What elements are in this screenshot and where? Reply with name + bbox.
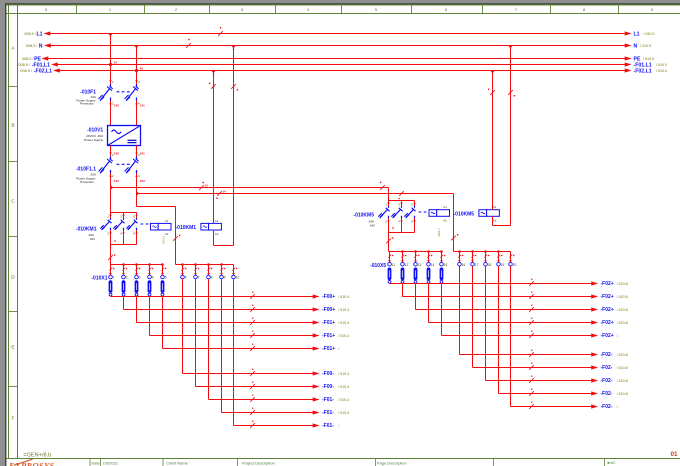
svg-text:10: 10 bbox=[236, 276, 240, 280]
terminal 9 bbox=[221, 265, 223, 276]
wire F1.1 pole2 down bbox=[136, 173, 138, 207]
wire output -F01+ row 5 bbox=[162, 296, 164, 349]
svg-text:E: E bbox=[11, 345, 14, 351]
terminal 11 bbox=[389, 252, 391, 263]
svg-text:/: / bbox=[338, 424, 339, 428]
svg-text:9: 9 bbox=[224, 276, 226, 280]
wire output -F01- row 8 bbox=[208, 279, 210, 399]
svg-text:14: 14 bbox=[431, 263, 435, 267]
svg-text:008.9 /: 008.9 / bbox=[18, 63, 31, 67]
terminal 2 bbox=[123, 265, 125, 276]
wire coil KM5b to N bbox=[492, 216, 494, 225]
svg-text:-F00+: -F00+ bbox=[322, 307, 335, 313]
svg-text:N: N bbox=[39, 43, 43, 49]
svg-text:5: 5 bbox=[165, 276, 167, 280]
svg-text:/ 010.0: / 010.0 bbox=[643, 57, 654, 61]
svg-text:Page Description: Page Description bbox=[377, 460, 407, 465]
svg-text:-F00-: -F00- bbox=[322, 384, 334, 390]
coil KM1 b bbox=[201, 223, 209, 230]
svg-text:-F02+: -F02+ bbox=[601, 294, 614, 300]
svg-text:/ 010.4: / 010.4 bbox=[338, 308, 349, 312]
wire output -F02+ row 5 bbox=[441, 283, 443, 336]
svg-text:-F02,L1: -F02,L1 bbox=[634, 68, 652, 74]
contactor KM5 pole 1 bbox=[388, 206, 390, 208]
svg-text:/ 010.0: / 010.0 bbox=[656, 69, 667, 73]
contactor KM1 pole 3 bbox=[136, 218, 138, 220]
title block bbox=[89, 459, 91, 466]
svg-text:A1: A1 bbox=[165, 219, 169, 223]
svg-text:1: 1 bbox=[113, 276, 115, 280]
terminal 5 bbox=[162, 265, 164, 276]
svg-text:01: 01 bbox=[671, 451, 679, 458]
svg-text:L1: L1 bbox=[36, 31, 42, 37]
svg-text:/ 010.0: / 010.0 bbox=[640, 44, 651, 48]
svg-text:/ 010.4: / 010.4 bbox=[338, 372, 349, 376]
wire bus -F02,L1 bbox=[59, 70, 625, 72]
svg-text:/ 010.8: / 010.8 bbox=[617, 353, 628, 357]
svg-text:A1: A1 bbox=[493, 205, 497, 209]
svg-text:-010KM5: -010KM5 bbox=[454, 211, 475, 217]
svg-text:1/5/2021: 1/5/2021 bbox=[103, 460, 118, 465]
svg-text:15: 15 bbox=[444, 263, 448, 267]
svg-text:-F02-: -F02- bbox=[601, 352, 613, 358]
circuit breaker F1.1 pole 1 bbox=[110, 156, 112, 159]
svg-text:7: 7 bbox=[198, 276, 200, 280]
svg-text:4: 4 bbox=[152, 276, 154, 280]
bus interrupt ticks bbox=[218, 31, 223, 36]
svg-text:141: 141 bbox=[140, 103, 145, 107]
svg-text:140: 140 bbox=[114, 103, 119, 107]
terminal 18 bbox=[485, 252, 487, 263]
svg-text:19: 19 bbox=[501, 263, 505, 267]
circuit breaker F1.1 pole 2 bbox=[136, 156, 138, 159]
svg-text:KM: KM bbox=[90, 237, 95, 241]
F1.1 mechanical link bbox=[117, 163, 131, 165]
contactor KM5 pole 3 bbox=[414, 206, 416, 208]
svg-text:-010KM1: -010KM1 bbox=[76, 226, 97, 232]
svg-text:/ 010.8: / 010.8 bbox=[617, 379, 628, 383]
wire output -F02+ row 4 bbox=[428, 283, 430, 323]
junction taps on buses bbox=[108, 34, 113, 37]
svg-text:-F01-: -F01- bbox=[322, 410, 334, 416]
contactor KM1 top bus bbox=[111, 212, 137, 214]
svg-text:12: 12 bbox=[405, 263, 409, 267]
KM5 bottom bus bbox=[388, 218, 390, 233]
wire F02 to coil KM1b bbox=[213, 71, 215, 224]
X1 bus group1 bbox=[111, 264, 163, 266]
svg-text:F: F bbox=[12, 416, 15, 422]
svg-text:/: / bbox=[338, 347, 339, 351]
svg-text:/ 010.8: / 010.8 bbox=[617, 366, 628, 370]
svg-text:-F02-: -F02- bbox=[601, 391, 613, 397]
svg-text:240: 240 bbox=[114, 151, 119, 155]
frame top green line bbox=[6, 4, 680, 6]
wire bus -F01,L1 bbox=[57, 64, 625, 66]
svg-text:10: 10 bbox=[205, 183, 209, 187]
svg-text:-F01+: -F01+ bbox=[322, 320, 335, 326]
svg-text:/: / bbox=[617, 334, 618, 338]
svg-text:/: / bbox=[617, 405, 618, 409]
svg-text:■ MC: ■ MC bbox=[607, 461, 616, 465]
svg-text:A1: A1 bbox=[443, 205, 447, 209]
svg-text:/ 010.8: / 010.8 bbox=[617, 308, 628, 312]
svg-text:3: 3 bbox=[139, 276, 141, 280]
wire output -F02- row 6 bbox=[459, 266, 461, 354]
svg-text:13: 13 bbox=[418, 263, 422, 267]
svg-text:-F00-: -F00- bbox=[322, 371, 334, 377]
wire output -F02- row 9 bbox=[498, 266, 500, 393]
terminal 7 bbox=[195, 265, 197, 276]
svg-text:008.9 /: 008.9 / bbox=[22, 57, 35, 61]
svg-text:/ 010.4: / 010.4 bbox=[338, 411, 349, 415]
wire output -F01+ row 4 bbox=[149, 296, 151, 336]
X5 bus group2 bbox=[454, 251, 511, 253]
wire B to X5 group2 bbox=[137, 193, 454, 195]
X5 bus group1 bbox=[389, 251, 442, 253]
wire coil KM1b to N bbox=[213, 230, 215, 246]
svg-text:14: 14 bbox=[223, 189, 227, 193]
svg-text:-F02-: -F02- bbox=[601, 378, 613, 384]
svg-text:/010.7: /010.7 bbox=[437, 228, 441, 237]
svg-text:/ 010.0: / 010.0 bbox=[656, 63, 667, 67]
svg-text:C: C bbox=[11, 199, 15, 205]
svg-text:/ 010.8: / 010.8 bbox=[617, 295, 628, 299]
terminal 3 bbox=[136, 265, 138, 276]
svg-text:42: 42 bbox=[140, 67, 144, 71]
terminal 14 bbox=[428, 252, 430, 263]
contactor KM5 top bus bbox=[389, 200, 415, 202]
svg-text:008.9 /: 008.9 / bbox=[20, 69, 33, 73]
wire output -F00+ row 1 bbox=[110, 295, 112, 298]
terminal 15 bbox=[441, 252, 443, 263]
coil KM5 a bbox=[429, 210, 437, 217]
KM1 bottom bus bbox=[110, 230, 112, 245]
svg-text:17: 17 bbox=[475, 263, 479, 267]
svg-text:-010V1: -010V1 bbox=[87, 128, 103, 134]
terminal 20 bbox=[510, 252, 512, 263]
svg-text:242: 242 bbox=[114, 179, 119, 183]
terminal 19 bbox=[498, 252, 500, 263]
svg-text:-F01-: -F01- bbox=[322, 397, 334, 403]
wire pole2 to distribution drop bbox=[137, 206, 176, 208]
wire L1 drop to F1 pole1 bbox=[110, 34, 112, 85]
svg-text:=GEN+/8.b: =GEN+/8.b bbox=[23, 452, 51, 458]
wire output -F02+ row 1 bbox=[389, 282, 391, 285]
svg-text:/ 010.4: / 010.4 bbox=[338, 295, 349, 299]
svg-text:-F01+: -F01+ bbox=[322, 346, 335, 352]
terminal 10 bbox=[233, 265, 235, 276]
svg-text:-F02+: -F02+ bbox=[601, 320, 614, 326]
wire bus PE bbox=[48, 58, 625, 60]
wire output -F02- row 8 bbox=[485, 266, 487, 380]
svg-text:-F02-: -F02- bbox=[601, 365, 613, 371]
svg-text:008.9 /: 008.9 / bbox=[24, 32, 37, 36]
svg-text:-010X5: -010X5 bbox=[370, 263, 386, 269]
svg-text:Protection: Protection bbox=[80, 180, 94, 184]
svg-text:/ 010.8: / 010.8 bbox=[617, 282, 628, 286]
svg-text:Project Description: Project Description bbox=[242, 460, 275, 465]
wire B drop bbox=[453, 194, 455, 252]
wire A drop into KM5 bbox=[388, 188, 390, 201]
svg-text:2: 2 bbox=[126, 276, 128, 280]
svg-text:241: 241 bbox=[140, 151, 145, 155]
wire output -F01+ row 3 bbox=[136, 296, 138, 323]
F1 mechanical link bbox=[117, 91, 131, 93]
svg-text:-F02+: -F02+ bbox=[601, 333, 614, 339]
wire output -F00- row 6 bbox=[182, 279, 184, 373]
svg-text:B: B bbox=[11, 123, 14, 129]
KM1 link dash bbox=[141, 223, 150, 225]
svg-text:/ 010.0: / 010.0 bbox=[644, 32, 655, 36]
coil KM1 a bbox=[151, 223, 159, 230]
svg-text:18: 18 bbox=[488, 263, 492, 267]
svg-text:/ 010.4: / 010.4 bbox=[338, 334, 349, 338]
terminal 13 bbox=[415, 252, 417, 263]
DC marks bbox=[128, 139, 137, 141]
svg-text:Client Name: Client Name bbox=[166, 460, 187, 465]
wire output -F01- row 10 bbox=[233, 279, 235, 425]
svg-text:20: 20 bbox=[513, 263, 517, 267]
svg-text:A1: A1 bbox=[215, 219, 219, 223]
svg-text:A2: A2 bbox=[215, 232, 219, 236]
svg-text:34: 34 bbox=[114, 61, 118, 65]
svg-text:A2: A2 bbox=[493, 219, 497, 223]
terminal 8 bbox=[208, 265, 210, 276]
wires PSU to F1.1 bbox=[110, 146, 112, 157]
svg-text:11: 11 bbox=[392, 263, 396, 267]
terminal 1 bbox=[110, 265, 112, 276]
contactor KM1 pole 2 bbox=[123, 218, 125, 220]
wire bus N bbox=[50, 45, 625, 47]
svg-text:Power Supply: Power Supply bbox=[84, 138, 104, 142]
svg-text:/ 010.8: / 010.8 bbox=[617, 321, 628, 325]
svg-text:L1: L1 bbox=[634, 31, 640, 37]
wires F1 to PSU bbox=[110, 101, 112, 126]
svg-text:8: 8 bbox=[211, 276, 213, 280]
contactor KM5 pole 2 bbox=[401, 206, 403, 208]
svg-text:16: 16 bbox=[462, 263, 466, 267]
svg-text:N: N bbox=[634, 43, 638, 49]
power supply V1 box bbox=[108, 126, 141, 146]
wire KM5 out down bbox=[388, 233, 390, 252]
svg-text:-010X1: -010X1 bbox=[91, 276, 107, 282]
wire F02 to coil KM5b bbox=[492, 71, 494, 210]
svg-text:A2: A2 bbox=[443, 219, 447, 223]
circuit breaker F1 pole 1 bbox=[110, 84, 112, 87]
svg-text:-F00+: -F00+ bbox=[322, 294, 335, 300]
wire N drop to F1 pole2 bbox=[136, 46, 138, 85]
svg-text:-010KM5: -010KM5 bbox=[353, 213, 374, 219]
svg-text:243: 243 bbox=[140, 179, 145, 183]
wire A to KM5 bbox=[111, 187, 389, 189]
sheet edge dark border bbox=[5, 3, 680, 4]
wire bus L1 bbox=[50, 33, 625, 35]
svg-text:-F02-: -F02- bbox=[601, 404, 613, 410]
svg-text:/ 010.4: / 010.4 bbox=[338, 321, 349, 325]
wire output -F00- row 7 bbox=[195, 279, 197, 386]
wire output -F02+ row 3 bbox=[415, 283, 417, 310]
wire output -F02- row 10 bbox=[510, 266, 512, 406]
wire output -F00+ row 2 bbox=[123, 296, 125, 310]
wire output -F02- row 7 bbox=[472, 266, 474, 367]
svg-text:-010KM1: -010KM1 bbox=[176, 225, 197, 231]
wire KM1 out down bbox=[110, 245, 112, 265]
svg-text:/ 010.4: / 010.4 bbox=[338, 385, 349, 389]
contactor KM1 pole 1 bbox=[110, 218, 112, 220]
wire F1.1 pole1 down to KM1 bbox=[110, 173, 112, 213]
svg-text:Protection: Protection bbox=[80, 102, 94, 106]
wire output -F02+ row 2 bbox=[402, 283, 404, 297]
circuit breaker F1 pole 2 bbox=[136, 84, 138, 87]
terminal 16 bbox=[459, 252, 461, 263]
svg-text:-F01+: -F01+ bbox=[322, 333, 335, 339]
svg-text:-F01-: -F01- bbox=[322, 423, 334, 429]
frame grid lines bbox=[6, 13, 680, 15]
svg-text:Date: Date bbox=[92, 460, 100, 465]
svg-text:A2: A2 bbox=[165, 232, 169, 236]
svg-text:D: D bbox=[11, 275, 15, 281]
svg-text:KM: KM bbox=[370, 224, 375, 228]
X1 bus group2 bbox=[176, 264, 234, 266]
wire output -F01- row 9 bbox=[221, 279, 223, 412]
KM5 link dash bbox=[419, 211, 428, 213]
coil KM5 b bbox=[479, 210, 487, 217]
row letters bbox=[9, 86, 18, 88]
terminal 4 bbox=[149, 265, 151, 276]
svg-text:-F02+: -F02+ bbox=[601, 281, 614, 287]
svg-text:008.9 /: 008.9 / bbox=[26, 44, 39, 48]
svg-text:6: 6 bbox=[185, 276, 187, 280]
svg-text:(R.A.): (R.A.) bbox=[162, 236, 166, 244]
svg-text:-F02+: -F02+ bbox=[601, 307, 614, 313]
terminal 12 bbox=[402, 252, 404, 263]
terminal 6 bbox=[182, 265, 184, 276]
terminal 17 bbox=[472, 252, 474, 263]
svg-text:/ 010.4: / 010.4 bbox=[338, 398, 349, 402]
svg-text:/ 010.8: / 010.8 bbox=[617, 392, 628, 396]
svg-text:-F02,L1: -F02,L1 bbox=[34, 68, 52, 74]
